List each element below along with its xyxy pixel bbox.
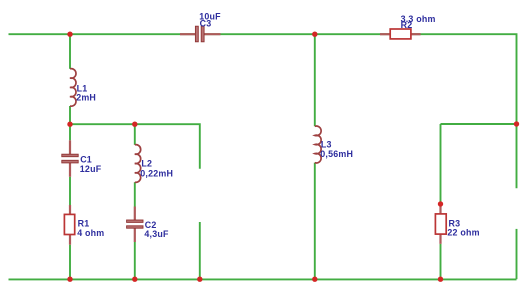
svg-text:22 ohm: 22 ohm <box>447 228 479 238</box>
svg-text:R2: R2 <box>401 20 413 30</box>
svg-text:0,56mH: 0,56mH <box>320 149 353 159</box>
svg-text:4,3uF: 4,3uF <box>144 229 169 239</box>
svg-text:C3: C3 <box>200 18 212 28</box>
svg-text:0,22mH: 0,22mH <box>140 169 173 179</box>
svg-text:4 ohm: 4 ohm <box>77 228 104 238</box>
svg-text:L2: L2 <box>141 159 152 169</box>
svg-text:12uF: 12uF <box>80 164 102 174</box>
svg-text:2mH: 2mH <box>76 93 96 103</box>
